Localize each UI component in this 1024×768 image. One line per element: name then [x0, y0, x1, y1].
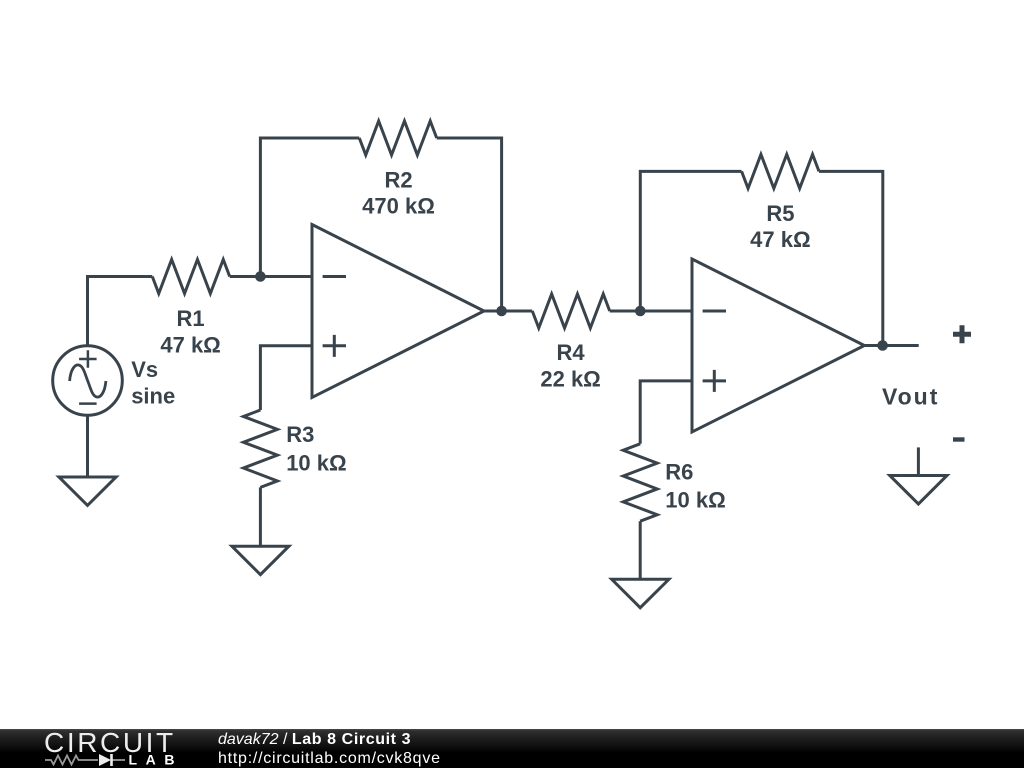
wire Vs top to R1 left [88, 277, 153, 346]
op-amp OA1 body [312, 225, 484, 398]
svg-text:470 kΩ: 470 kΩ [362, 194, 435, 219]
output minus terminal mark [953, 437, 965, 441]
wire R5 right lead down to output node D [819, 171, 883, 345]
Vs minus polarity mark [79, 402, 97, 405]
wire op-amp OA1 non-inverting input to R3 top [260, 346, 312, 410]
op-amp OA2 minus pin mark [703, 310, 726, 313]
node B junction dot [496, 306, 507, 317]
ground symbol below R6 [612, 579, 669, 607]
svg-text:LAB: LAB [129, 752, 184, 768]
svg-text:R6: R6 [665, 460, 693, 485]
output plus terminal mark [953, 325, 971, 343]
resistor R3 zigzag [243, 410, 277, 487]
svg-text:R3: R3 [286, 422, 314, 447]
resistor R2 zigzag [359, 121, 436, 155]
ground symbol below R3 [232, 546, 289, 574]
resistor R5 zigzag [742, 154, 819, 188]
wire Vs bottom to ground [86, 415, 89, 477]
voltage source Vs circle [53, 346, 123, 416]
svg-text:10 kΩ: 10 kΩ [665, 488, 725, 513]
svg-text:R2: R2 [384, 167, 412, 192]
Vs plus polarity mark [79, 350, 97, 368]
op-amp OA1 minus pin mark [323, 275, 346, 278]
CircuitLab logo [43, 729, 183, 768]
svg-text:22 kΩ: 22 kΩ [540, 366, 600, 391]
node C junction dot [635, 306, 646, 317]
wire node A up to R2 left lead [260, 138, 359, 277]
footer bar [0, 729, 1024, 768]
op-amp OA2 plus pin mark [703, 370, 726, 392]
ground symbol at Vout minus terminal [917, 447, 920, 475]
ground symbol below Vs [59, 477, 116, 505]
node A junction dot [255, 271, 266, 282]
svg-text:47 kΩ: 47 kΩ [160, 332, 220, 357]
svg-text:R5: R5 [766, 201, 794, 226]
resistor R6 zigzag [623, 444, 657, 521]
svg-text:Vout: Vout [882, 384, 939, 410]
footer title text [218, 730, 441, 768]
node D junction dot [877, 340, 888, 351]
resistor R1 zigzag [152, 260, 229, 294]
wire R6 bottom to ground [639, 521, 642, 579]
wire R1 to op-amp OA1 inverting input (through node A) [230, 275, 312, 278]
svg-text:47 kΩ: 47 kΩ [750, 227, 810, 252]
op-amp OA2 body [692, 259, 864, 432]
Vs sine waveform [70, 365, 106, 397]
svg-text:R1: R1 [177, 306, 205, 331]
wire R3 bottom to ground [259, 487, 262, 546]
resistor R4 zigzag [532, 294, 609, 328]
wire R4 right to op-amp OA2 inverting input (through node C) [610, 310, 692, 313]
svg-text:sine: sine [131, 383, 175, 408]
op-amp OA1 plus pin mark [323, 335, 346, 357]
wire op-amp OA1 output to R4 left (through node B) [484, 310, 532, 313]
wire op-amp OA2 non-inverting input to R6 top [640, 381, 692, 444]
svg-text:10 kΩ: 10 kΩ [286, 450, 346, 475]
wire R2 right lead down to output node B [437, 138, 502, 311]
svg-text:Vs: Vs [131, 357, 158, 382]
wire op-amp OA2 output to + terminal [864, 344, 918, 347]
wire node C up to R5 left lead [640, 171, 741, 311]
svg-text:R4: R4 [557, 340, 586, 365]
